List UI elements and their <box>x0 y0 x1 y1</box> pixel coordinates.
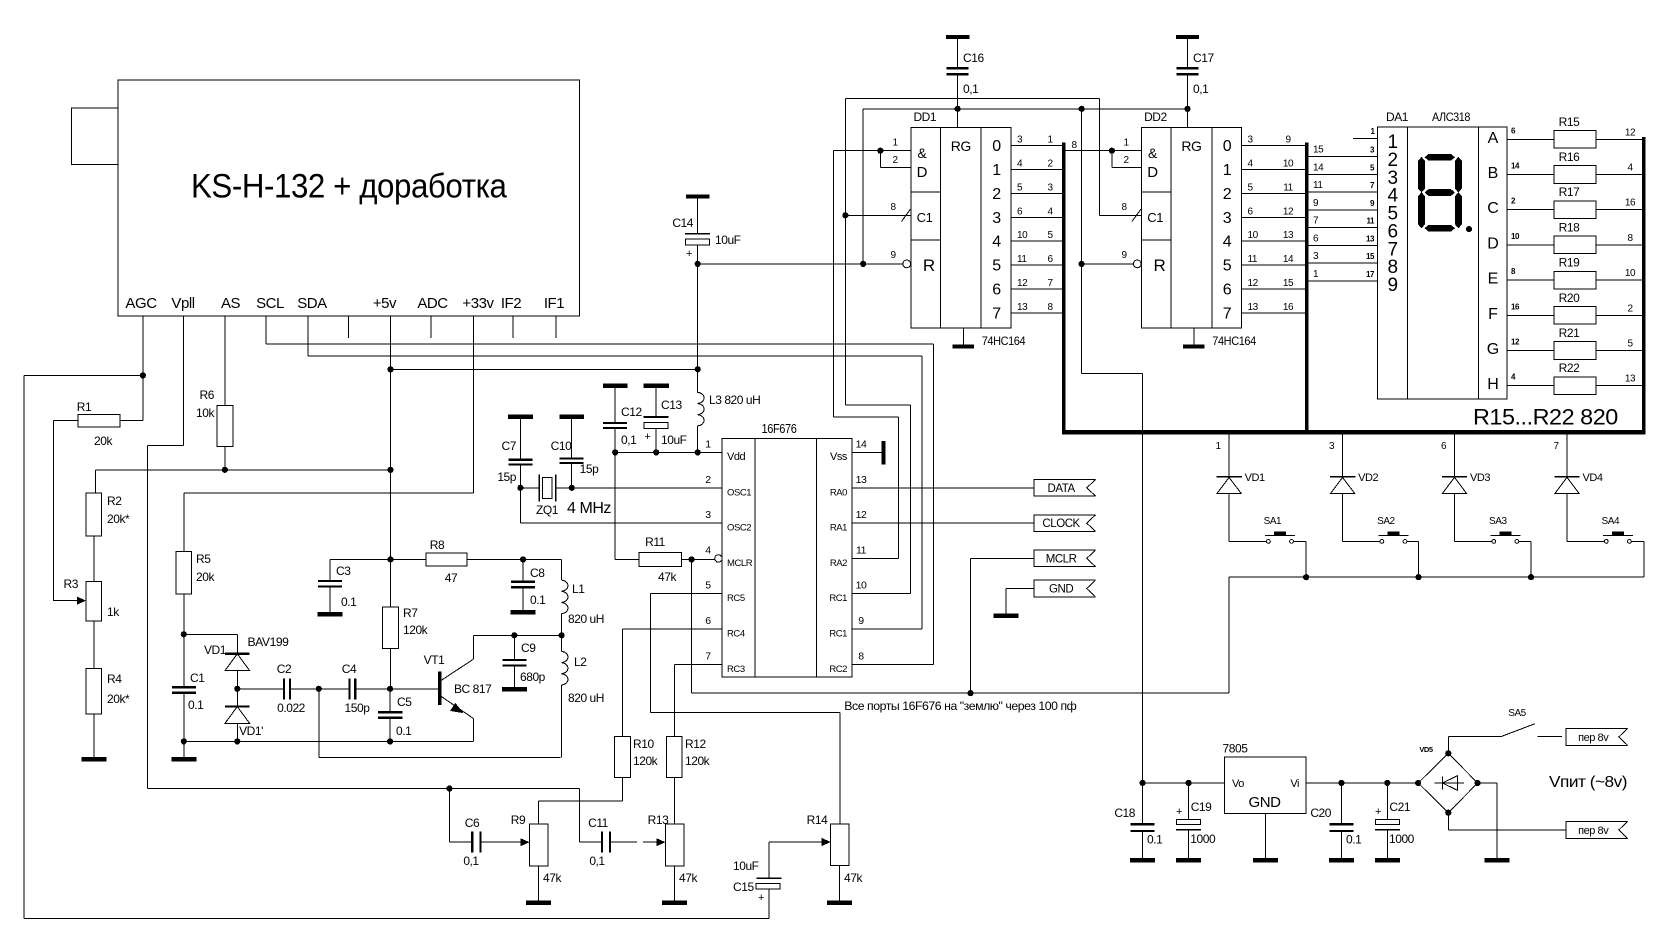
wire +33v down <box>473 316 475 493</box>
node bridge left <box>1415 780 1421 786</box>
ground GND flag <box>994 614 1019 619</box>
svg-text:20k*: 20k* <box>107 692 130 706</box>
svg-text:1: 1 <box>1123 138 1129 149</box>
ground C8 <box>511 610 536 615</box>
svg-text:11: 11 <box>1248 254 1258 265</box>
svg-text:0: 0 <box>992 138 1001 155</box>
resistor R15 <box>1554 131 1596 149</box>
wire R18 to bus pin 8 <box>1596 244 1642 246</box>
diode VD3 <box>1442 476 1467 478</box>
wire MCLR flag <box>971 557 1035 559</box>
svg-text:0.1: 0.1 <box>1346 833 1362 847</box>
wire RC4 to R10 <box>623 628 723 630</box>
pin IF1 stub <box>555 316 557 338</box>
svg-text:3: 3 <box>1047 182 1053 193</box>
node +5 feed <box>1079 106 1085 112</box>
wire RA2 to DD1 data <box>852 557 899 559</box>
svg-text:7: 7 <box>1553 441 1559 452</box>
svg-text:20k: 20k <box>196 570 215 584</box>
wire display pin 7 (net 11) <box>1309 191 1378 193</box>
wire SA4 to common <box>1631 540 1644 542</box>
svg-text:C11: C11 <box>588 816 609 830</box>
svg-text:SCL: SCL <box>256 295 284 312</box>
svg-text:G: G <box>1487 341 1499 358</box>
resistor R5 <box>176 551 192 594</box>
svg-text:R11: R11 <box>645 535 666 549</box>
wire frame left horizontal <box>24 374 143 376</box>
svg-text:C: C <box>1487 200 1498 217</box>
svg-text:0.1: 0.1 <box>530 593 546 607</box>
svg-text:C5: C5 <box>397 695 412 709</box>
svg-text:3: 3 <box>1313 251 1319 262</box>
svg-text:+: + <box>758 892 764 904</box>
svg-text:RC3: RC3 <box>727 664 745 675</box>
ground Vss (bar) <box>881 441 885 465</box>
svg-text:SA2: SA2 <box>1377 516 1395 527</box>
resistor R22 <box>1554 377 1596 395</box>
capacitor C1 <box>183 634 185 687</box>
DD1 output Q2 pin 5 wire 3 <box>1011 192 1062 194</box>
svg-text:R15: R15 <box>1559 115 1580 129</box>
svg-text:GND: GND <box>1049 584 1073 596</box>
svg-text:1: 1 <box>892 138 898 149</box>
node C6 riser <box>446 785 452 791</box>
bus DD1 outputs (thick) <box>1062 142 1065 432</box>
resistor R2 <box>86 493 102 536</box>
DD2 output Q3 pin 6 wire 12 <box>1242 216 1306 218</box>
wire Vpll to C6/C11 row <box>148 788 450 790</box>
svg-text:16: 16 <box>1625 198 1636 209</box>
wire +5v to C14 column <box>391 368 698 370</box>
svg-text:74HC164: 74HC164 <box>1212 334 1256 348</box>
svg-text:16: 16 <box>1283 302 1294 313</box>
clock slash DD1 <box>902 209 911 222</box>
wire +5v row to R2/R6 <box>95 469 390 471</box>
svg-text:RC2: RC2 <box>829 664 847 675</box>
svg-text:Vss: Vss <box>830 451 848 463</box>
node C14 column <box>695 366 701 372</box>
node C14 bottom <box>695 261 701 267</box>
capacitor C4 <box>319 688 350 690</box>
wire RA1 to CLOCK <box>852 522 1034 524</box>
svg-text:RG: RG <box>1181 138 1201 154</box>
wire VD2 to SA2 <box>1342 494 1344 542</box>
potentiometer R13 <box>665 824 683 866</box>
svg-text:4: 4 <box>705 544 711 556</box>
DD2 output Q2 pin 5 wire 11 <box>1242 192 1306 194</box>
svg-text:C12: C12 <box>621 405 642 419</box>
svg-text:RG: RG <box>951 138 971 154</box>
svg-text:C4: C4 <box>342 662 357 676</box>
svg-text:47k: 47k <box>679 871 698 885</box>
svg-text:16: 16 <box>1511 302 1520 311</box>
ground 7805 <box>1253 858 1278 863</box>
wire display pin 15 (net 3) <box>1309 262 1378 264</box>
bridge rectifier VD5 <box>1418 753 1477 812</box>
svg-text:1: 1 <box>992 162 1001 179</box>
DD1 output Q6 pin 12 wire 7 <box>1011 288 1062 290</box>
svg-text:13: 13 <box>1017 302 1028 313</box>
resistor R10 <box>615 737 631 778</box>
wire R17 to bus pin 16 <box>1596 209 1642 211</box>
DD1 output Q4 pin 10 wire 5 <box>1011 240 1062 242</box>
resistor R17 <box>1554 201 1596 219</box>
svg-text:R12: R12 <box>685 737 706 751</box>
svg-text:SA3: SA3 <box>1489 516 1507 527</box>
wire Vi line <box>1306 782 1420 784</box>
ground C1 <box>171 757 196 762</box>
wire R21 to bus pin 5 <box>1596 350 1642 352</box>
bus DD2 outputs (thick) <box>1305 142 1308 432</box>
wire R20 to bus pin 2 <box>1596 314 1642 316</box>
svg-text:5: 5 <box>1047 230 1053 241</box>
svg-text:16F676: 16F676 <box>762 422 797 436</box>
svg-text:5: 5 <box>705 580 711 592</box>
svg-text:SA5: SA5 <box>1508 708 1526 719</box>
capacitor C15 (electrolytic) <box>768 842 770 878</box>
capacitor C14 (electrolytic) <box>697 199 699 234</box>
ground C18 <box>1130 858 1155 863</box>
svg-text:C8: C8 <box>530 566 545 580</box>
svg-text:B: B <box>1488 165 1498 182</box>
svg-text:A: A <box>1488 130 1499 147</box>
wire bridge top to SA5 <box>1447 736 1449 753</box>
ground DD1 <box>962 328 964 345</box>
pin stub NC <box>348 316 350 338</box>
wire node down to L2 row <box>318 689 320 758</box>
svg-text:R: R <box>923 256 935 275</box>
potentiometer R3 <box>86 582 102 621</box>
svg-text:KS-H-132 + доработка: KS-H-132 + доработка <box>191 168 507 206</box>
svg-text:10: 10 <box>1511 232 1520 241</box>
wire RA0 to DATA <box>852 487 1034 489</box>
svg-text:47k: 47k <box>658 570 677 584</box>
svg-text:820 uH: 820 uH <box>568 612 604 626</box>
svg-text:R6: R6 <box>200 388 215 402</box>
capacitor C18 <box>1142 783 1144 824</box>
node MCLR flag riser <box>967 690 973 696</box>
svg-text:GND: GND <box>1249 794 1282 811</box>
svg-text:0.1: 0.1 <box>188 698 204 712</box>
svg-text:АЛС318: АЛС318 <box>1432 110 1471 124</box>
svg-text:C13: C13 <box>661 398 682 412</box>
svg-text:+: + <box>1375 806 1381 818</box>
svg-text:12: 12 <box>1017 278 1028 289</box>
DD2 output Q7 pin 13 wire 16 <box>1242 312 1306 314</box>
svg-text:IF1: IF1 <box>544 295 564 312</box>
svg-text:R20: R20 <box>1559 291 1580 305</box>
svg-text:3: 3 <box>992 210 1001 227</box>
svg-text:E: E <box>1488 271 1498 288</box>
IC DD1 74HC164 <box>911 128 1011 328</box>
svg-text:R21: R21 <box>1559 326 1580 340</box>
node +5v column <box>387 467 393 473</box>
bus display right (thick) <box>1642 137 1645 433</box>
wire display pin 17 (net 1) <box>1309 280 1378 282</box>
wire D to R18 <box>1507 244 1554 246</box>
svg-text:13: 13 <box>1625 374 1636 385</box>
svg-text:C21: C21 <box>1389 800 1410 814</box>
svg-text:47k: 47k <box>844 871 863 885</box>
svg-text:15: 15 <box>1283 278 1294 289</box>
DD1 output Q1 pin 4 wire 2 <box>1011 168 1062 170</box>
node C16/+5 rail <box>955 106 961 112</box>
wire VD3 to SA3 <box>1454 494 1456 542</box>
wire C3/R8 row <box>330 558 426 560</box>
svg-text:2: 2 <box>892 155 898 166</box>
resistor R7 <box>390 559 392 606</box>
wire C14 column down <box>697 264 699 369</box>
wire +5v column <box>390 316 392 559</box>
svg-text:C19: C19 <box>1191 800 1212 814</box>
svg-text:6: 6 <box>1313 233 1319 244</box>
capacitor C6 <box>471 832 473 853</box>
svg-text:1000: 1000 <box>1190 832 1216 846</box>
svg-text:13: 13 <box>1366 234 1375 243</box>
svg-text:10: 10 <box>1625 268 1636 279</box>
wire collector row <box>473 634 561 636</box>
svg-text:1: 1 <box>1313 269 1319 280</box>
svg-text:8: 8 <box>1121 202 1127 213</box>
svg-text:L2: L2 <box>574 655 587 669</box>
wire C6 to R9 arrow <box>521 838 530 846</box>
svg-text:RC4: RC4 <box>727 629 745 640</box>
DD2 output Q6 pin 12 wire 15 <box>1242 288 1306 290</box>
wire bus1 to DD2 input <box>1065 150 1141 152</box>
svg-text:MCLR: MCLR <box>1046 553 1077 565</box>
node VD1' bottom <box>234 738 240 744</box>
wire SA3 to common <box>1519 540 1531 542</box>
svg-text:6: 6 <box>1017 206 1023 217</box>
svg-text:R15...R22 820: R15...R22 820 <box>1473 405 1618 430</box>
DD1 output Q0 pin 3 wire 1 <box>1011 145 1062 147</box>
wire VD4 to SA4 <box>1566 494 1568 542</box>
wire node to VD1 <box>184 633 238 635</box>
svg-text:13: 13 <box>1248 302 1259 313</box>
button SA3 <box>1492 540 1496 544</box>
ground C3 <box>318 612 343 617</box>
svg-text:MCLR: MCLR <box>727 558 753 569</box>
svg-text:1: 1 <box>1047 135 1053 146</box>
svg-text:C3: C3 <box>336 564 351 578</box>
svg-text:5: 5 <box>1627 339 1633 350</box>
svg-text:VD4: VD4 <box>1583 472 1603 484</box>
DD1 output Q3 pin 6 wire 4 <box>1011 216 1062 218</box>
capacitor C11 <box>601 832 603 853</box>
svg-text:10: 10 <box>1017 230 1028 241</box>
svg-text:C9: C9 <box>521 641 536 655</box>
resistor R21 <box>1554 342 1596 360</box>
node C10/OSC1 <box>569 485 575 491</box>
wire bus to VD2 <box>1342 432 1344 477</box>
svg-text:L1: L1 <box>572 582 585 596</box>
wire SA common to MCLR line <box>1228 577 1230 693</box>
capacitor C13 (electrolytic) <box>655 388 657 417</box>
svg-text:3: 3 <box>1329 441 1335 452</box>
ground C20 <box>1329 858 1354 863</box>
wire R9 bottom <box>538 866 540 900</box>
svg-text:D: D <box>917 164 928 181</box>
wire C15 to R14 arrow <box>822 838 831 846</box>
svg-text:14: 14 <box>1511 162 1520 171</box>
ground C21 <box>1375 858 1400 863</box>
node VD1/C2 <box>234 686 240 692</box>
ground R14 <box>827 900 852 905</box>
node C7/OSC <box>517 485 523 491</box>
node SA1 common <box>1303 574 1309 580</box>
svg-text:120k: 120k <box>403 623 429 637</box>
wire DD1 pin8 <box>845 214 910 216</box>
svg-text:7: 7 <box>705 650 711 662</box>
capacitor C17 <box>1187 39 1189 68</box>
wire RC5 run <box>650 593 722 595</box>
wire +5 feed down <box>1081 109 1083 374</box>
svg-text:4: 4 <box>1627 163 1633 174</box>
svg-text:9: 9 <box>890 250 896 261</box>
flag GND <box>1034 580 1096 597</box>
wire bridge right to ground <box>1478 782 1498 784</box>
svg-text:Все порты 16F676 на "землю" че: Все порты 16F676 на "землю" через 100 пф <box>844 699 1076 713</box>
wire R3-R4 <box>93 621 95 668</box>
svg-text:7: 7 <box>1313 216 1319 227</box>
wire R12 to R13 <box>673 778 675 824</box>
svg-text:DD2: DD2 <box>1144 110 1167 124</box>
wire R19 to bus pin 10 <box>1596 279 1642 281</box>
svg-text:8: 8 <box>1047 302 1053 313</box>
ground bar C16 <box>946 35 969 39</box>
svg-text:VD1: VD1 <box>204 643 227 657</box>
svg-text:+33v: +33v <box>462 295 494 312</box>
node C2/C4 <box>316 686 322 692</box>
node DD2 R <box>1079 261 1085 267</box>
node C12/Vdd rail <box>612 449 618 455</box>
svg-text:4: 4 <box>992 234 1001 251</box>
svg-text:R10: R10 <box>633 737 654 751</box>
svg-text:12: 12 <box>856 509 867 521</box>
resistor R6 <box>217 406 233 447</box>
pin ADC stub <box>430 316 432 338</box>
wire C11 branch <box>449 788 579 790</box>
svg-text:15p: 15p <box>580 462 599 476</box>
svg-text:+5v: +5v <box>373 295 397 312</box>
svg-text:10: 10 <box>1283 158 1294 169</box>
resistor R16 <box>1554 166 1596 184</box>
regulator 7805 <box>1225 757 1307 814</box>
svg-text:4: 4 <box>1017 158 1023 169</box>
svg-text:9: 9 <box>858 615 864 627</box>
node R7 top <box>387 556 393 562</box>
svg-text:1000: 1000 <box>1389 832 1415 846</box>
wire bus to VD1 <box>1228 432 1230 477</box>
flag DATA <box>1034 480 1096 497</box>
svg-text:1: 1 <box>1216 441 1222 452</box>
diode VD1 <box>225 653 250 655</box>
node C8 top <box>520 556 526 562</box>
DD2 output Q0 pin 3 wire 9 <box>1242 145 1306 147</box>
svg-text:Vdd: Vdd <box>727 451 746 463</box>
svg-text:R14: R14 <box>807 813 828 827</box>
wire +33v to R5 <box>184 492 474 494</box>
svg-text:13: 13 <box>856 474 867 486</box>
svg-text:7: 7 <box>1047 278 1053 289</box>
wire Vdd rail <box>615 451 722 453</box>
inductor L2 <box>562 651 568 685</box>
svg-text:17: 17 <box>1366 270 1375 279</box>
wire DD2 pin8 <box>1100 214 1142 216</box>
svg-text:RA1: RA1 <box>830 523 847 534</box>
svg-text:0.022: 0.022 <box>277 701 306 715</box>
node L1/L2/C9 <box>559 632 565 638</box>
svg-text:6: 6 <box>1223 282 1232 299</box>
wire AGC down <box>142 316 144 421</box>
svg-text:VD1': VD1' <box>239 724 263 738</box>
svg-text:IF2: IF2 <box>501 295 521 312</box>
diode VD4 <box>1554 476 1579 478</box>
wire +5 feed to PSU column <box>1082 373 1143 375</box>
wire R2-R3 <box>93 536 95 582</box>
wire F to R20 <box>1507 314 1554 316</box>
node SA3 common <box>1528 574 1534 580</box>
svg-text:Vпит (~8v): Vпит (~8v) <box>1549 774 1627 791</box>
switch SA5 <box>1502 724 1536 737</box>
wire 7805 GND <box>1265 813 1267 858</box>
wire +5 riser <box>862 109 864 264</box>
svg-text:120k: 120k <box>685 754 711 768</box>
svg-text:1k: 1k <box>107 605 120 619</box>
KS-H-132 connector tab <box>72 108 119 165</box>
svg-text:4 MHz: 4 MHz <box>567 500 611 517</box>
button SA2 <box>1380 540 1384 544</box>
R circle DD2 <box>1133 260 1141 268</box>
svg-text:8: 8 <box>1072 140 1078 151</box>
wire R13 bottom <box>674 866 676 900</box>
wire RC3 to R12 <box>674 663 722 665</box>
wire +5 rail top <box>863 108 1187 110</box>
svg-text:12: 12 <box>1248 278 1259 289</box>
svg-text:AS: AS <box>221 295 241 312</box>
svg-text:R4: R4 <box>107 672 122 686</box>
wire MCLR common line <box>691 559 693 693</box>
potentiometer R9 <box>530 824 548 866</box>
svg-text:VD1: VD1 <box>1245 472 1265 484</box>
flag CLOCK <box>1034 515 1096 532</box>
wire B to R16 <box>1507 174 1554 176</box>
wire Vpll down <box>183 316 185 445</box>
svg-text:RC5: RC5 <box>727 593 745 604</box>
node C13/Vdd rail <box>653 449 659 455</box>
svg-text:R: R <box>1153 256 1165 275</box>
wire OSC2 <box>520 522 722 524</box>
svg-text:&: & <box>1148 145 1158 161</box>
node C1/VD1 <box>181 631 187 637</box>
svg-text:RA2: RA2 <box>830 558 847 569</box>
svg-text:C14: C14 <box>672 216 693 230</box>
ground bridge <box>1485 858 1510 863</box>
seven-segment glyph 8. <box>1425 154 1456 161</box>
svg-text:0,1: 0,1 <box>1193 82 1209 96</box>
ground R9 <box>526 900 551 905</box>
svg-text:R3: R3 <box>64 577 79 591</box>
IC DD2 74HC164 <box>1141 128 1241 328</box>
svg-text:15p: 15p <box>497 470 516 484</box>
svg-text:5: 5 <box>1248 182 1254 193</box>
svg-text:C18: C18 <box>1114 806 1135 820</box>
wire Vo line <box>1143 782 1225 784</box>
svg-text:OSC2: OSC2 <box>727 523 751 534</box>
svg-text:C10: C10 <box>551 439 572 453</box>
capacitor C2 <box>237 688 284 690</box>
svg-text:4: 4 <box>1223 234 1232 251</box>
